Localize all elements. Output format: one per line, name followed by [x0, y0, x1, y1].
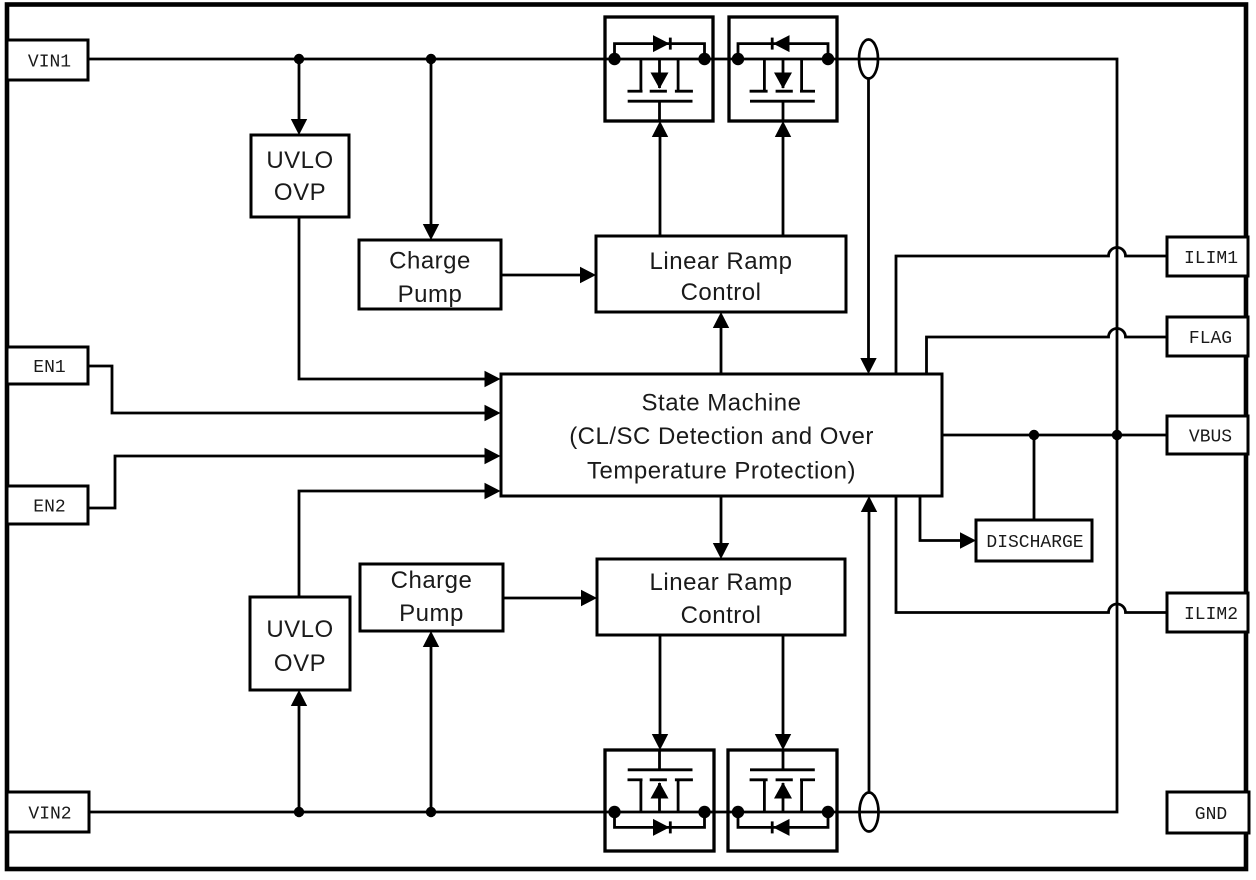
block UVLO OVP channel 2 — [250, 597, 350, 690]
wire UVLO2 to State Machine input 4 — [299, 491, 486, 597]
arrowhead into DISCHARGE left — [960, 532, 976, 548]
svg-text:Linear Ramp: Linear Ramp — [650, 248, 793, 275]
transistor Q1 pass FET with body diode — [605, 17, 713, 121]
svg-text:UVLO: UVLO — [266, 616, 333, 643]
wire Linear Ramp Control 1 to gate of Q1 — [659, 135, 662, 236]
svg-text:EN2: EN2 — [33, 498, 65, 518]
svg-text:DISCHARGE: DISCHARGE — [986, 533, 1083, 553]
arrowhead into Linear Ramp Control 1 left — [580, 267, 596, 283]
wire current sense 2 to State Machine bottom — [868, 510, 871, 793]
arrowhead into State Machine input 1 — [485, 371, 501, 387]
arrowhead into State Machine bottom — [861, 496, 877, 512]
svg-text:GND: GND — [1195, 805, 1227, 825]
arrowhead into Linear Ramp Control 2 top — [713, 543, 729, 559]
wire ILIM2 pin to State Machine — [896, 496, 1167, 613]
svg-text:OVP: OVP — [274, 650, 326, 677]
svg-text:ILIM1: ILIM1 — [1184, 249, 1238, 269]
block UVLO OVP channel 1 — [251, 135, 349, 217]
svg-text:ILIM2: ILIM2 — [1184, 605, 1238, 625]
svg-text:Charge: Charge — [391, 567, 473, 594]
pin EN2 — [7, 486, 88, 524]
junction node on VIN2 rail at UVLO2 tap — [294, 807, 304, 817]
pin VIN1 — [7, 40, 88, 80]
pin GND — [1167, 792, 1249, 833]
pin EN1 — [7, 347, 88, 384]
svg-text:VBUS: VBUS — [1189, 428, 1232, 448]
svg-text:Temperature Protection): Temperature Protection) — [587, 458, 856, 485]
block Charge Pump channel 1 — [359, 240, 501, 309]
wire VBUS to DISCHARGE — [1033, 435, 1036, 520]
wire current sense 1 to State Machine top — [867, 78, 870, 360]
arrowhead into Q4 gate — [775, 734, 791, 750]
block Linear Ramp Control channel 2 — [597, 559, 845, 635]
arrowhead into Q1 gate — [652, 121, 668, 137]
wire VIN1 to UVLO1 — [298, 59, 301, 120]
arrowhead into State Machine input 3 — [485, 448, 501, 464]
arrowhead into Charge Pump 1 — [423, 224, 439, 240]
svg-text:VIN1: VIN1 — [28, 53, 71, 73]
junction node on VIN1 rail at charge pump tap — [426, 54, 436, 64]
arrowhead into Linear Ramp Control 2 left — [581, 590, 597, 606]
wire UVLO1 to State Machine input 1 — [299, 217, 486, 379]
pin VIN2 — [7, 792, 89, 832]
arrowhead into Charge Pump 2 bottom — [423, 631, 439, 647]
block Charge Pump channel 2 — [360, 564, 503, 631]
svg-text:Pump: Pump — [398, 281, 463, 308]
junction node on VBUS wire at discharge tap — [1029, 430, 1039, 440]
wire State Machine to Linear Ramp Control 1 — [720, 326, 723, 374]
arrowhead into UVLO2 bottom — [291, 690, 307, 706]
svg-text:(CL/SC Detection and Over: (CL/SC Detection and Over — [569, 423, 874, 450]
transistor Q3 pass FET with body diode — [605, 750, 714, 851]
wire State Machine to Linear Ramp Control 2 — [720, 496, 723, 545]
wire Linear Ramp Control 2 to gate of Q4 — [782, 635, 785, 736]
wire Charge Pump 2 to Linear Ramp Control 2 — [503, 597, 583, 600]
wire VIN2 to Charge Pump 2 — [430, 645, 433, 812]
block State Machine — [501, 374, 942, 496]
svg-text:Control: Control — [681, 602, 762, 629]
wire VIN1 top rail to output corner and down to VIN2 bottom rail — [88, 59, 1117, 812]
svg-text:Charge: Charge — [389, 248, 471, 275]
wire Charge Pump 1 to Linear Ramp Control 1 — [501, 274, 582, 277]
wire EN2 to State Machine input 3 — [88, 456, 486, 508]
wire State Machine to DISCHARGE — [920, 496, 962, 541]
junction node on VIN1 rail at UVLO1 tap — [294, 54, 304, 64]
arrowhead into Linear Ramp Control 1 bottom — [713, 312, 729, 328]
pin ILIM1 — [1167, 237, 1248, 276]
svg-text:Control: Control — [681, 279, 762, 306]
arrowhead into Q2 gate — [775, 121, 791, 137]
block Linear Ramp Control channel 1 — [596, 236, 846, 312]
pin VBUS — [1167, 416, 1248, 454]
svg-text:State Machine: State Machine — [642, 390, 802, 417]
svg-text:FLAG: FLAG — [1189, 329, 1232, 349]
wire State Machine to VBUS pin — [942, 434, 1167, 437]
svg-text:Pump: Pump — [399, 600, 464, 627]
arrowhead into Q3 gate — [652, 734, 668, 750]
svg-text:OVP: OVP — [274, 179, 326, 206]
current sense element 2 — [860, 793, 879, 832]
wire EN1 to State Machine input 2 — [88, 366, 486, 413]
arrowhead into State Machine input 2 — [485, 405, 501, 421]
svg-text:UVLO: UVLO — [266, 147, 333, 174]
junction node on VIN2 rail at charge pump tap — [426, 807, 436, 817]
junction node VBUS to output rail — [1112, 430, 1122, 440]
wire ILIM1 pin to State Machine — [896, 248, 1167, 375]
wire VIN2 to UVLO2 — [298, 704, 301, 812]
block DISCHARGE — [976, 520, 1092, 561]
wire Linear Ramp Control 2 to gate of Q3 — [659, 635, 662, 736]
transistor Q2 pass FET with body diode — [729, 17, 837, 121]
pin ILIM2 — [1167, 593, 1248, 632]
arrowhead into State Machine top — [860, 358, 876, 374]
wire Linear Ramp Control 1 to gate of Q2 — [782, 135, 785, 236]
wire VIN1 to Charge Pump 1 — [430, 59, 433, 225]
arrowhead into State Machine input 4 — [485, 483, 501, 499]
svg-text:EN1: EN1 — [33, 358, 65, 378]
svg-text:Linear Ramp: Linear Ramp — [650, 569, 793, 596]
pin FLAG — [1167, 317, 1248, 356]
wire FLAG pin to State Machine — [927, 329, 1168, 375]
transistor Q4 pass FET with body diode — [728, 750, 837, 851]
arrowhead into UVLO1 — [291, 119, 307, 135]
current sense element 1 — [859, 40, 878, 79]
svg-text:VIN2: VIN2 — [28, 805, 71, 825]
